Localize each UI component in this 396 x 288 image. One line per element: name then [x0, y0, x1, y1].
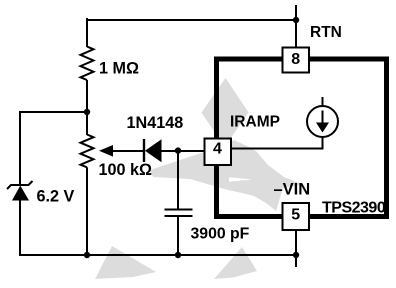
zener diode 6.2V triangle: [12, 186, 29, 201]
wire left vertical lower: [19, 201, 21, 256]
svg-text:TPS2390: TPS2390: [322, 200, 386, 217]
svg-text:RTN: RTN: [310, 24, 342, 41]
pin 4 box: [205, 139, 232, 166]
node bottom-right junction: [293, 252, 299, 258]
svg-text:1N4148: 1N4148: [127, 114, 184, 132]
pin 8 box: [283, 48, 310, 73]
IC U1 TPS2390 outline: [217, 59, 387, 217]
node pot-bottom junction: [84, 252, 90, 258]
svg-text:6.2 V: 6.2 V: [37, 188, 75, 206]
wire pot bottom: [86, 167, 88, 255]
potentiometer 100k zigzag: [81, 135, 94, 168]
node diode-capacitor junction: [175, 147, 181, 153]
zener diode 6.2V bar: [7, 181, 33, 189]
wire capacitor bottom lead: [177, 216, 179, 256]
svg-text:IRAMP: IRAMP: [230, 114, 280, 131]
wire RTN stub vertical: [295, 5, 297, 48]
svg-text:4: 4: [213, 141, 222, 158]
wire left branch horizontal: [19, 111, 87, 113]
node RTN junction: [293, 17, 299, 23]
potentiometer wiper arrow: [99, 145, 144, 157]
wire bottom horizontal: [19, 254, 297, 256]
wire pin4 to current source: [231, 137, 323, 149]
capacitor 3900pF plates: [165, 210, 193, 217]
wire pin5 stub bottom: [295, 230, 297, 267]
diode D1 1N4148 triangle: [145, 139, 162, 162]
wire resistor bottom to pot top: [86, 80, 88, 135]
svg-text:1 MΩ: 1 MΩ: [99, 60, 139, 78]
node capacitor-bottom junction: [175, 252, 181, 258]
wire left vertical upper: [19, 111, 21, 185]
current source arrow: [316, 111, 329, 133]
wire resistor top: [86, 18, 88, 47]
current source circle: [307, 106, 338, 137]
svg-text:–VIN: –VIN: [274, 181, 311, 199]
wire capacitor top lead: [177, 151, 179, 210]
current source stub top: [322, 97, 324, 107]
svg-text:3900 pF: 3900 pF: [191, 226, 250, 243]
wire diode to pin4: [161, 150, 205, 152]
diode D1 1N4148 cathode bar: [143, 139, 145, 162]
wire top horizontal: [86, 19, 297, 21]
node resistor-pot junction: [84, 109, 90, 115]
svg-text:100 kΩ: 100 kΩ: [99, 161, 153, 179]
resistor 1M zigzag: [81, 47, 94, 81]
svg-text:8: 8: [291, 51, 300, 68]
pin 5 box: [283, 203, 310, 230]
svg-text:5: 5: [291, 207, 300, 224]
